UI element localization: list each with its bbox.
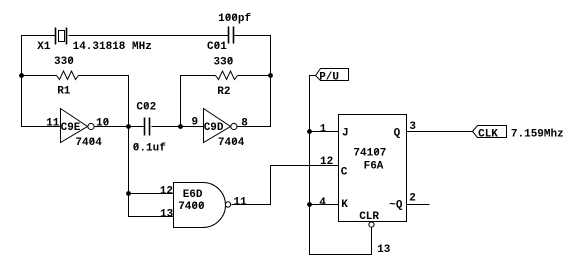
resistor R2 [216,71,238,80]
svg-text:F6A: F6A [364,161,384,173]
junction NAND input [126,191,131,196]
resistor R1 [57,71,79,80]
junction node B [126,124,131,129]
inverter C9E [61,109,95,143]
wire flip-flop Q output [407,131,473,133]
svg-text:K: K [341,199,348,211]
svg-text:13: 13 [160,209,174,221]
svg-text:100pf: 100pf [218,13,251,25]
svg-text:R2: R2 [217,86,230,98]
junction node C [178,124,183,129]
svg-text:C02: C02 [136,102,156,114]
svg-text:7.159Mhz: 7.159Mhz [511,129,564,141]
svg-text:330: 330 [54,56,74,68]
inverter C9D [204,109,237,143]
svg-text:CLK: CLK [478,128,498,140]
wire NAND output [232,166,339,205]
wire crystal to C01 [69,35,229,37]
svg-text:~Q: ~Q [389,199,403,211]
slashed zero marks [69,14,379,208]
wire R2 loop [181,76,216,127]
wire node B to NAND inputs [129,127,174,217]
svg-text:CLR: CLR [359,211,379,223]
wire C9D input [181,126,204,128]
wire flip-flop K pin [310,204,339,206]
wire R1 left [22,75,57,77]
wire node D: C01 right, right vertical, C9D output [235,36,271,127]
svg-text:C9D: C9D [204,122,224,134]
svg-text:7400: 7400 [178,201,204,213]
module port P/U [316,69,349,84]
svg-text:7404: 7404 [75,137,102,149]
svg-text:X1: X1 [37,41,51,53]
svg-text:3: 3 [409,121,416,133]
capacitor C01 [229,27,234,44]
wire C02 left [129,126,144,128]
svg-text:13: 13 [377,244,391,256]
svg-text:12: 12 [320,156,333,168]
crystal X1 [56,28,67,45]
svg-text:E6D: E6D [183,189,203,201]
svg-text:74107: 74107 [353,148,386,160]
wire C9E output [95,126,129,128]
flip-flop 74107 box [339,115,407,222]
svg-text:11: 11 [234,197,248,209]
svg-text:2: 2 [409,193,416,205]
wire R1 right to inverter output [79,76,129,127]
NAND gate E6D [174,183,231,228]
svg-text:1: 1 [320,124,327,136]
svg-text:C01: C01 [207,41,227,53]
svg-text:12: 12 [160,186,173,198]
svg-text:R1: R1 [57,86,71,98]
svg-text:C: C [341,167,348,179]
wire flip-flop notQ stub [407,204,430,206]
svg-text:8: 8 [241,117,248,129]
wire node A: top segment, left vertical, C9E input [22,36,61,127]
CLR bubble [369,222,374,227]
wire NAND pin 12 [129,193,174,195]
junction J input [307,129,312,134]
junction node A R1 [19,73,24,78]
junction K input [307,202,312,207]
svg-text:14.31818 MHz: 14.31818 MHz [73,41,152,53]
wire R2 right [238,75,271,77]
svg-text:7404: 7404 [218,137,245,149]
svg-text:11: 11 [46,118,60,130]
wire flip-flop J pin [310,131,339,133]
wire C02 right [152,126,181,128]
svg-text:4: 4 [319,197,326,209]
svg-text:C9E: C9E [61,122,81,134]
svg-text:9: 9 [192,117,199,129]
svg-text:P/U: P/U [319,72,339,84]
junction node D R2 [268,73,273,78]
module port CLK [473,126,507,141]
wire P/U net vertical and CLR return [310,76,372,255]
capacitor C02 [145,118,150,136]
svg-text:Q: Q [394,127,401,139]
svg-text:J: J [342,127,349,139]
svg-text:330: 330 [214,56,234,68]
